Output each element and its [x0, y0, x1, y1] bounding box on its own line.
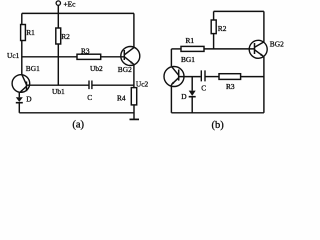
wire R3 to BG2 base	[101, 56, 125, 58]
resistor R2	[56, 28, 61, 44]
wire R2 bottom crossing Uc1 rail to Ub1 rail	[57, 44, 59, 85]
svg-text:(a): (a)	[72, 120, 84, 131]
transistor BG2b emitter arrow	[260, 54, 264, 57]
capacitor C (b)	[201, 70, 205, 81]
wire BG2b collector	[263, 11, 265, 42]
svg-text:+Ec: +Ec	[64, 0, 77, 9]
wire R3b to BG2b emitter	[241, 76, 264, 78]
svg-text:R3: R3	[81, 47, 90, 56]
resistor R1 (b)	[181, 46, 204, 51]
transistor BG1 (b)	[164, 67, 184, 87]
wire R2b top	[213, 11, 215, 20]
wire BG1b collector riser	[170, 49, 172, 66]
wire R1b to BG2b base	[204, 48, 255, 50]
svg-text:Uc1: Uc1	[7, 51, 20, 60]
transistor BG1	[12, 75, 30, 93]
svg-text:R4: R4	[117, 93, 126, 102]
ground	[130, 118, 140, 120]
svg-text:C: C	[201, 83, 206, 92]
wire bottom rail (a)	[19, 112, 134, 114]
transistor BG1 emitter arrow	[20, 90, 23, 93]
svg-text:BG2: BG2	[118, 65, 132, 74]
svg-text:R2: R2	[218, 24, 227, 33]
capacitor C	[89, 81, 92, 90]
svg-text:R1: R1	[186, 36, 195, 45]
wire R2b bottom to base rail	[213, 34, 215, 49]
terminal +Ec	[56, 1, 60, 5]
svg-text:R1: R1	[26, 28, 35, 37]
resistor R2 (b)	[211, 20, 216, 34]
wire R4 to ground	[133, 105, 135, 119]
svg-text:BG1: BG1	[26, 64, 40, 73]
wire BG2b emitter down	[263, 57, 265, 113]
resistor R3	[77, 54, 101, 59]
svg-text:Uc2: Uc2	[136, 79, 149, 88]
svg-text:Ub1: Ub1	[52, 87, 65, 96]
svg-text:R2: R2	[61, 32, 70, 41]
wire R1 bottom to BG1 collector	[21, 41, 23, 75]
svg-text:C: C	[87, 93, 92, 102]
node Uc1 rail	[22, 56, 77, 58]
svg-text:Ub2: Ub2	[90, 64, 103, 73]
wire C to R3 (b)	[206, 76, 220, 78]
node base rail (b)	[179, 76, 201, 78]
wire R1 top	[21, 13, 23, 24]
svg-text:(b): (b)	[212, 120, 225, 131]
wire top rail (b)	[214, 10, 264, 12]
svg-text:D: D	[181, 92, 187, 101]
wire BG2 collector	[133, 13, 135, 47]
transistor BG2 (b)	[249, 40, 267, 58]
wire bottom rail (b)	[171, 112, 264, 114]
diode D	[18, 92, 20, 97]
svg-text:BG1: BG1	[181, 55, 195, 64]
wire BG2 emitter to R4	[133, 64, 135, 87]
wire C to BG2 emitter node	[92, 84, 134, 86]
svg-text:BG2: BG2	[270, 39, 284, 48]
wire R1b left	[171, 48, 181, 50]
wire +Ec stem to R2	[57, 5, 59, 28]
transistor BG2 emitter arrow	[130, 61, 134, 64]
resistor R1	[21, 25, 26, 41]
transistor BG1b emitter arrow	[171, 82, 174, 85]
wire BG1b emitter down	[170, 85, 172, 113]
diode D (b)	[191, 77, 193, 91]
svg-text:R3: R3	[226, 82, 235, 91]
transistor BG2	[121, 47, 140, 66]
resistor R3 (b)	[219, 74, 241, 80]
resistor R4	[131, 88, 136, 105]
svg-text:D: D	[26, 94, 32, 103]
wire top rail (a)	[22, 12, 134, 14]
node Ub1 rail	[27, 84, 89, 86]
